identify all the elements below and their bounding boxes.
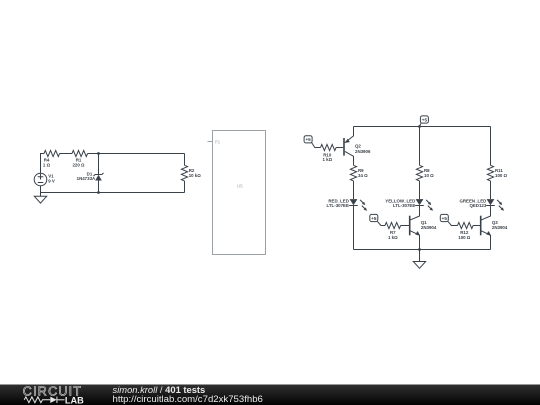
svg-text:220 Ω: 220 Ω: [72, 162, 85, 167]
svg-text:100 Ω: 100 Ω: [495, 173, 508, 178]
svg-text:10 kΩ: 10 kΩ: [189, 173, 202, 178]
svg-text:100 Ω: 100 Ω: [458, 235, 471, 240]
svg-text:LTL-307EE: LTL-307EE: [327, 203, 349, 208]
svg-text:LAB: LAB: [65, 395, 84, 405]
svg-text:P1: P1: [215, 139, 221, 144]
svg-text:Q3: Q3: [492, 220, 498, 225]
svg-text:http://circuitlab.com/c7d2xk75: http://circuitlab.com/c7d2xk753fhb6: [113, 394, 263, 405]
svg-text:1N4733A: 1N4733A: [77, 176, 96, 181]
svg-text:1 kΩ: 1 kΩ: [322, 157, 332, 162]
svg-text:2N3904: 2N3904: [492, 225, 508, 230]
svg-text:34 Ω: 34 Ω: [358, 173, 368, 178]
svg-text:U5: U5: [237, 183, 243, 188]
svg-text:10 Ω: 10 Ω: [424, 173, 434, 178]
svg-text:1 Ω: 1 Ω: [43, 162, 51, 167]
svg-text:Q2: Q2: [355, 144, 361, 149]
svg-text:LTL-307EE: LTL-307EE: [393, 203, 415, 208]
svg-text:Q1: Q1: [421, 220, 427, 225]
svg-text:9 V: 9 V: [48, 179, 55, 184]
svg-text:2N3904: 2N3904: [421, 225, 437, 230]
svg-text:V1: V1: [48, 173, 54, 178]
svg-text:QED123: QED123: [469, 203, 486, 208]
svg-text:1 kΩ: 1 kΩ: [388, 235, 398, 240]
svg-text:2N3906: 2N3906: [355, 149, 371, 154]
